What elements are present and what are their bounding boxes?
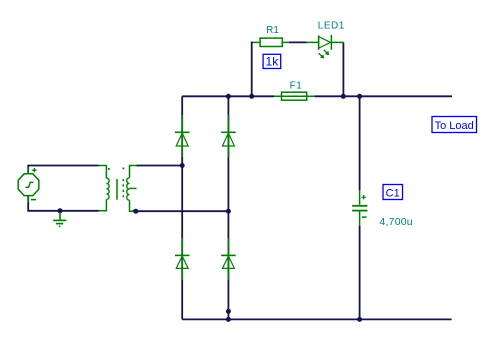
- wire top rail left segment: [182, 95, 274, 97]
- svg-text:F1: F1: [290, 81, 303, 92]
- value 4,700u: [380, 216, 413, 228]
- wire C1 branch upper: [359, 96, 361, 190]
- junction dot top rail at R1 branch: [249, 94, 254, 99]
- wire bridge column 2: [227, 96, 229, 319]
- junction dot bottom rail at column 2: [226, 317, 231, 322]
- ground: [53, 212, 66, 226]
- wire secondary top to bridge: [137, 165, 183, 167]
- AC source V1: [18, 167, 39, 203]
- junction dot secondary top at bridge: [180, 163, 185, 168]
- junction dot secondary bottom at bridge: [226, 209, 231, 214]
- svg-text:C1: C1: [386, 187, 400, 199]
- wire source bottom to primary: [28, 196, 98, 211]
- LED LED1: [307, 35, 344, 59]
- wire C1 branch lower: [359, 226, 361, 319]
- junction dot secondary bottom terminal: [133, 209, 138, 214]
- junction dot bottom rail at C1: [357, 317, 362, 322]
- diode D3 (bridge bottom-left): [175, 238, 190, 280]
- svg-text:R1: R1: [266, 25, 279, 36]
- wire top rail right segment: [314, 95, 452, 97]
- svg-text:LED1: LED1: [318, 21, 345, 32]
- label F1: [290, 81, 303, 92]
- svg-text:To Load: To Load: [435, 120, 474, 132]
- fuse F1: [274, 92, 314, 100]
- resistor R1: [253, 38, 289, 46]
- wire R1 branch left vertical: [252, 42, 253, 96]
- label R1: [266, 25, 279, 36]
- junction dot top rail at C1 branch: [357, 94, 362, 99]
- wire LED right vertical: [342, 42, 344, 96]
- transformer T1: [99, 166, 137, 212]
- diode D1 (bridge top-left): [175, 115, 190, 157]
- svg-text:1k: 1k: [266, 55, 280, 69]
- wire R1 to LED segment: [289, 41, 307, 43]
- junction dot top rail at column 2: [226, 94, 231, 99]
- svg-text:4,700u: 4,700u: [380, 216, 413, 228]
- diode D2 (bridge top-right): [221, 115, 236, 157]
- junction dot ground: [58, 208, 63, 213]
- junction dot column 2 above bottom rail: [226, 309, 231, 314]
- label box C1: [383, 185, 403, 200]
- wire secondary bottom to bridge: [132, 210, 228, 212]
- diode D4 (bridge bottom-right): [221, 238, 236, 280]
- wire bottom rail: [182, 318, 451, 320]
- label box To Load: [432, 117, 477, 133]
- wire source top to primary: [28, 166, 98, 174]
- value box 1k: [263, 54, 281, 68]
- wire bridge column 1: [181, 96, 183, 319]
- capacitor C1: [352, 190, 367, 226]
- junction dot top rail at LED branch: [341, 94, 346, 99]
- label LED1: [318, 21, 345, 32]
